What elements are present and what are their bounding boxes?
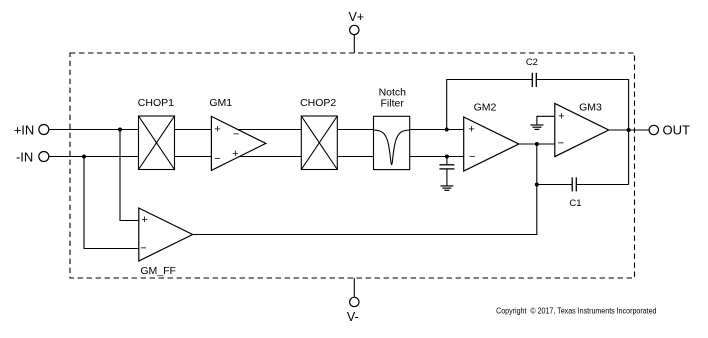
svg-text:+IN: +IN <box>14 123 35 138</box>
svg-text:−: − <box>233 129 239 141</box>
svg-text:C1: C1 <box>569 198 581 209</box>
svg-text:GM3: GM3 <box>579 101 602 113</box>
svg-text:−: − <box>140 243 146 255</box>
svg-text:−: − <box>214 153 220 165</box>
svg-text:GM2: GM2 <box>474 101 497 113</box>
svg-text:V+: V+ <box>348 10 364 24</box>
svg-text:GM1: GM1 <box>209 97 232 109</box>
svg-text:−: − <box>469 151 475 163</box>
svg-text:+: + <box>468 124 474 136</box>
svg-text:V-: V- <box>347 310 359 324</box>
svg-text:−: − <box>558 138 564 150</box>
svg-text:GM_FF: GM_FF <box>140 265 176 277</box>
svg-text:C2: C2 <box>526 57 538 68</box>
svg-text:Copyright © 2017, Texas Instr: Copyright © 2017, Texas Instruments Inco… <box>496 307 656 316</box>
svg-text:+: + <box>558 111 564 123</box>
svg-text:Filter: Filter <box>381 97 405 109</box>
svg-text:-IN: -IN <box>16 150 33 165</box>
svg-text:OUT: OUT <box>663 123 691 138</box>
svg-text:CHOP2: CHOP2 <box>300 97 336 109</box>
svg-text:+: + <box>141 214 147 226</box>
svg-text:+: + <box>232 148 238 160</box>
svg-text:+: + <box>214 124 220 136</box>
svg-text:CHOP1: CHOP1 <box>138 97 174 109</box>
